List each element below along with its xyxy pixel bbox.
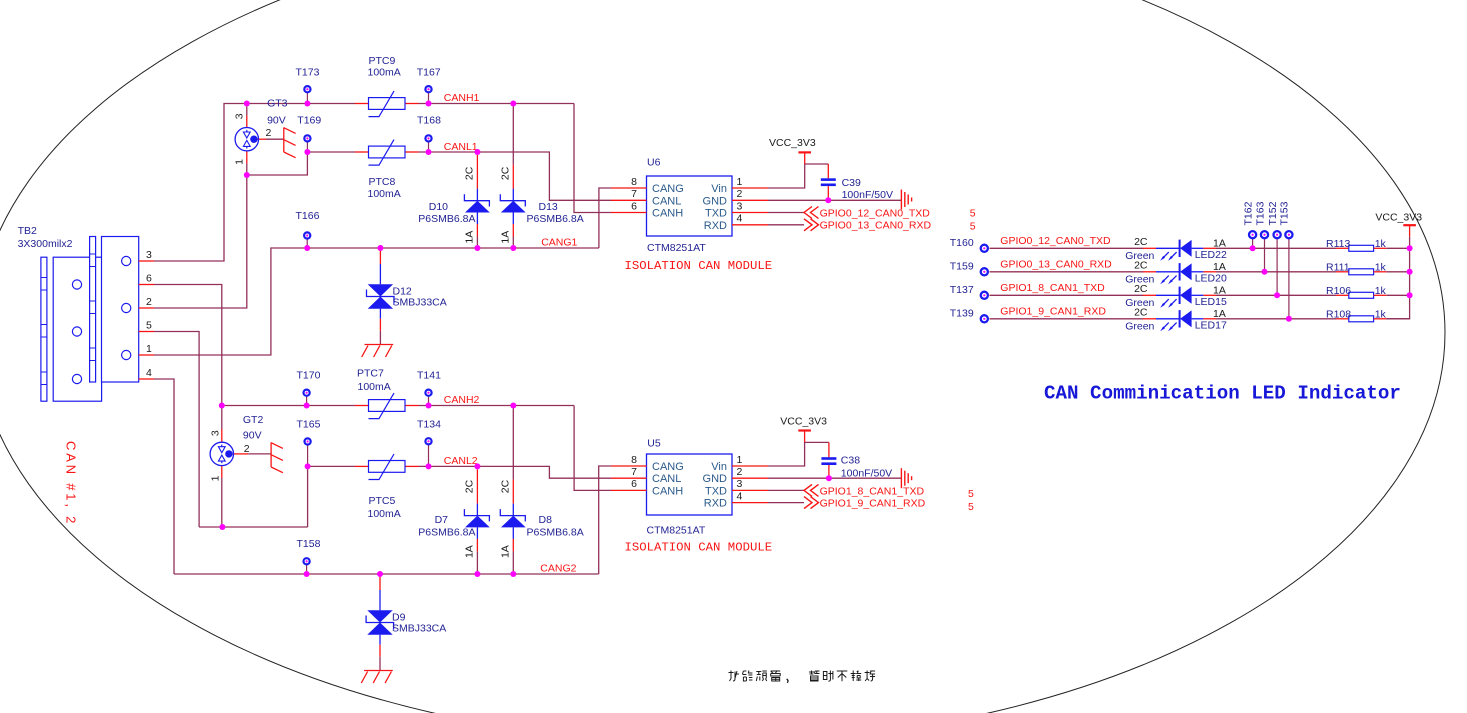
svg-text:T152: T152	[1267, 201, 1279, 225]
svg-text:SMBJ33CA: SMBJ33CA	[392, 623, 446, 635]
junction	[426, 101, 432, 107]
junction	[426, 403, 432, 409]
svg-text:GPIO1_9_CAN1_RXD: GPIO1_9_CAN1_RXD	[1000, 306, 1106, 318]
junction	[474, 571, 480, 577]
wire CANH2 to U5 pin6	[574, 406, 611, 491]
svg-text:1: 1	[234, 159, 246, 165]
svg-text:100mA: 100mA	[358, 381, 391, 393]
svg-text:CANL: CANL	[652, 473, 681, 485]
svg-text:T170: T170	[297, 370, 321, 382]
U5 pin names	[652, 461, 727, 510]
svg-text:GPIO0_13_CAN0_RXD: GPIO0_13_CAN0_RXD	[1000, 259, 1112, 271]
IC U5 CTM8251AT	[611, 454, 768, 515]
svg-text:1: 1	[737, 176, 743, 188]
test point T170	[304, 390, 310, 406]
wire GT3 pin1 to CANL1	[247, 152, 308, 175]
U6 pin numbers	[631, 176, 742, 225]
svg-text:2: 2	[146, 296, 152, 308]
wire U5 TXD	[768, 489, 804, 491]
PTC fuse PTC7	[355, 393, 419, 419]
junction C39-GND	[825, 197, 831, 203]
svg-text:2C: 2C	[463, 166, 475, 180]
wire LED to resistor	[1216, 294, 1336, 296]
test point T137	[981, 292, 988, 299]
svg-text:LED17: LED17	[1195, 320, 1227, 332]
svg-text:LED15: LED15	[1195, 296, 1227, 308]
svg-text:100nF/50V: 100nF/50V	[841, 467, 892, 479]
svg-text:P6SMB6.8A: P6SMB6.8A	[418, 213, 475, 225]
svg-text:GPIO0_12_CAN0_TXD: GPIO0_12_CAN0_TXD	[1000, 235, 1111, 247]
wire U6 GND to ground	[768, 199, 901, 201]
wire CANH1 to PTC9	[247, 103, 355, 105]
svg-text:GPIO0_12_CAN0_TXD: GPIO0_12_CAN0_TXD	[820, 207, 931, 219]
svg-text:2: 2	[737, 466, 743, 478]
bidirectional TVS D9	[366, 577, 394, 671]
port chevron TXD (U6)	[804, 207, 819, 219]
GT2 pin2 wire	[233, 453, 272, 455]
svg-text:CANH: CANH	[652, 485, 683, 497]
connector TB2 (back body)	[41, 257, 102, 401]
wire U5 GND to ground	[768, 477, 901, 479]
PTC fuse PTC5	[355, 454, 419, 480]
resistor R113	[1336, 245, 1386, 251]
GT2 pin1 vertical	[221, 466, 223, 527]
svg-text:100nF/50V: 100nF/50V	[842, 189, 893, 201]
wire TB2-4 down to CANG2	[154, 379, 174, 574]
LED LED15	[1143, 287, 1216, 308]
test point T173	[304, 86, 310, 103]
resistor R111	[1336, 269, 1386, 275]
junction	[474, 463, 480, 469]
wire CANL1 to PTC8	[307, 151, 355, 153]
svg-text:R106: R106	[1326, 285, 1351, 297]
op-amp/IC U6 CTM8251AT	[611, 176, 768, 236]
svg-text:TXD: TXD	[705, 208, 727, 220]
svg-text:1k: 1k	[1375, 261, 1387, 273]
svg-text:T167: T167	[417, 67, 441, 79]
wire resistor to VCC rail	[1386, 318, 1409, 320]
wire CANH2 to PTC7	[222, 405, 355, 407]
LED LED20	[1143, 263, 1216, 284]
svg-text:6: 6	[631, 478, 637, 490]
svg-text:1k: 1k	[1375, 285, 1387, 297]
note text (chinese) 功能预留，暂时不焊接	[729, 671, 876, 683]
junction	[510, 101, 516, 107]
svg-text:TB2: TB2	[18, 225, 37, 237]
svg-text:VCC_3V3: VCC_3V3	[780, 416, 827, 428]
svg-text:GPIO0_13_CAN0_RXD: GPIO0_13_CAN0_RXD	[820, 220, 932, 232]
svg-text:T169: T169	[297, 115, 321, 127]
svg-text:T159: T159	[950, 260, 974, 272]
svg-text:P6SMB6.8A: P6SMB6.8A	[527, 213, 584, 225]
spark gap earth symbol (GT3 pin2)	[284, 127, 296, 157]
test point T158	[304, 558, 310, 574]
wire LED to resistor	[1216, 271, 1336, 273]
svg-text:6: 6	[146, 272, 152, 284]
wire CANH1 PTC9 to corner	[418, 103, 574, 105]
gas discharge tube GT3	[235, 128, 258, 151]
svg-text:Green: Green	[1125, 321, 1154, 333]
junction	[426, 149, 432, 155]
svg-text:T162: T162	[1242, 201, 1254, 225]
svg-text:4: 4	[737, 213, 743, 225]
LED LED17	[1143, 310, 1216, 331]
wire U5 Vin to VCC	[768, 442, 829, 466]
port chevron TXD (U5)	[804, 484, 819, 496]
svg-text:5: 5	[146, 319, 152, 331]
capacitor C38 plates	[821, 457, 836, 465]
wire CANL1 to U6 pin7	[418, 152, 611, 200]
wire LED to resistor	[1216, 247, 1336, 249]
svg-text:CANH2: CANH2	[444, 394, 480, 406]
junction	[510, 571, 516, 577]
svg-text:2C: 2C	[499, 479, 511, 493]
junction	[305, 463, 311, 469]
wire T139 to LED	[990, 318, 1144, 320]
svg-text:ISOLATION CAN MODULE: ISOLATION CAN MODULE	[625, 541, 773, 555]
svg-text:D10: D10	[429, 201, 448, 213]
test point T134	[425, 438, 431, 466]
ground (chassis) below D12	[362, 345, 394, 358]
svg-text:RXD: RXD	[704, 220, 727, 232]
svg-text:TXD: TXD	[705, 485, 727, 497]
junction	[244, 172, 250, 178]
svg-text:4: 4	[737, 490, 743, 502]
svg-text:2: 2	[266, 127, 272, 139]
svg-text:GPIO1_8_CAN1_TXD: GPIO1_8_CAN1_TXD	[820, 485, 925, 497]
svg-text:2: 2	[737, 188, 743, 200]
wire U6 Vin to VCC	[768, 164, 828, 188]
svg-text:LED20: LED20	[1195, 273, 1227, 285]
svg-text:CTM8251AT: CTM8251AT	[647, 525, 706, 537]
svg-text:2C: 2C	[499, 166, 511, 180]
junction T162	[1250, 245, 1256, 251]
junction	[474, 245, 480, 251]
test point T141	[425, 390, 431, 406]
svg-text:1k: 1k	[1375, 308, 1387, 320]
svg-text:3: 3	[737, 200, 743, 212]
wire T159 to LED	[990, 271, 1144, 273]
svg-text:2C: 2C	[1134, 260, 1148, 272]
svg-text:U6: U6	[647, 157, 661, 169]
svg-text:CAN Comminication LED Indicato: CAN Comminication LED Indicator	[1044, 383, 1401, 405]
wire TB2-3 to CANH1	[154, 104, 247, 262]
wire T160 to LED	[990, 247, 1144, 249]
resistor R106	[1336, 292, 1386, 298]
wire resistor to VCC rail	[1386, 247, 1409, 249]
svg-text:2: 2	[244, 443, 250, 455]
svg-text:T153: T153	[1279, 201, 1291, 225]
junction	[304, 149, 310, 155]
junction C38-GND	[826, 475, 832, 481]
wire VCC rail	[1386, 237, 1409, 319]
svg-text:GPIO1_8_CAN1_TXD: GPIO1_8_CAN1_TXD	[1000, 282, 1105, 294]
svg-text:5: 5	[970, 221, 976, 233]
svg-text:7: 7	[631, 188, 637, 200]
power symbol VCC_3V3 (U5)	[798, 431, 811, 443]
svg-text:PTC8: PTC8	[369, 176, 396, 188]
svg-text:CANH: CANH	[652, 208, 683, 220]
TVS diode D7	[464, 469, 489, 571]
junction T163	[1262, 269, 1268, 275]
svg-text:4: 4	[146, 367, 152, 379]
svg-text:CANL1: CANL1	[444, 141, 478, 153]
svg-text:ISOLATION CAN MODULE: ISOLATION CAN MODULE	[625, 259, 773, 273]
svg-text:R113: R113	[1326, 238, 1350, 250]
capacitor C39 plates	[821, 178, 836, 186]
ground (U5 GND)	[901, 468, 911, 488]
svg-text:T160: T160	[950, 237, 974, 249]
wire T137 to LED	[990, 294, 1144, 296]
wire TB2-2 up to GT3 pin1	[154, 175, 247, 308]
svg-text:CANG2: CANG2	[540, 563, 576, 575]
svg-text:8: 8	[631, 176, 637, 188]
svg-text:T137: T137	[950, 284, 974, 296]
svg-text:8: 8	[631, 454, 637, 466]
svg-text:7: 7	[631, 466, 637, 478]
wire CANG2 to U5 pin8	[599, 466, 611, 574]
svg-text:GT3: GT3	[267, 98, 288, 110]
test point T169	[304, 135, 310, 152]
svg-text:5: 5	[968, 501, 974, 513]
junction VCC rail	[1407, 245, 1413, 251]
svg-text:1A: 1A	[463, 231, 475, 244]
wire CANL2 to PTC5	[308, 465, 355, 467]
GT3 pin2 wire	[257, 138, 283, 140]
svg-text:D8: D8	[539, 514, 553, 526]
test point T139	[981, 315, 988, 322]
wire CANL2 to U5 pin7	[418, 466, 611, 478]
svg-text:T141: T141	[417, 370, 441, 382]
resistor R108	[1336, 316, 1386, 322]
svg-text:1: 1	[210, 475, 222, 481]
junction	[244, 101, 250, 107]
svg-text:CANG1: CANG1	[541, 237, 577, 249]
junction	[510, 403, 516, 409]
svg-text:VCC_3V3: VCC_3V3	[1375, 212, 1422, 224]
junction	[510, 245, 516, 251]
wire U6 RXD	[768, 224, 804, 226]
svg-text:T168: T168	[417, 115, 441, 127]
svg-text:6: 6	[631, 200, 637, 212]
svg-text:1A: 1A	[499, 231, 511, 244]
svg-text:1: 1	[737, 454, 743, 466]
test point T153	[1285, 231, 1292, 319]
svg-text:R111: R111	[1326, 261, 1350, 273]
capacitor C38	[828, 442, 830, 457]
svg-text:1A: 1A	[499, 545, 511, 558]
junction	[426, 463, 432, 469]
test point T159	[981, 268, 988, 275]
svg-text:VCC_3V3: VCC_3V3	[769, 137, 816, 149]
svg-text:T165: T165	[297, 418, 321, 430]
svg-text:T173: T173	[296, 67, 320, 79]
LED LED22	[1143, 240, 1216, 261]
svg-text:PTC7: PTC7	[357, 368, 384, 380]
wire U5 RXD	[768, 502, 804, 504]
svg-text:90V: 90V	[267, 115, 286, 127]
svg-text:T158: T158	[297, 538, 321, 550]
test point T162	[1249, 231, 1256, 248]
svg-text:2C: 2C	[1134, 307, 1148, 319]
GT3 pin1 vertical	[246, 151, 248, 175]
port chevron RXD (U6)	[804, 219, 819, 231]
capacitor C39	[827, 164, 829, 178]
wire CANH1 to U6 pin6	[574, 104, 611, 213]
PTC fuse PTC9	[355, 91, 419, 117]
TB2 pin stubs and numbers	[139, 261, 154, 379]
junction	[219, 524, 225, 530]
svg-text:1A: 1A	[463, 545, 475, 558]
wire riser to CANL2	[307, 466, 309, 527]
svg-text:D13: D13	[539, 201, 558, 213]
svg-text:1k: 1k	[1375, 238, 1387, 250]
GT2 pin3 vertical	[221, 403, 223, 443]
junction	[474, 149, 480, 155]
svg-text:T139: T139	[950, 307, 974, 319]
TVS diode D13	[500, 106, 525, 245]
svg-text:CANG: CANG	[652, 183, 684, 195]
TVS diode D8	[500, 408, 525, 571]
svg-text:CAN #1, 2: CAN #1, 2	[64, 441, 79, 526]
svg-text:D7: D7	[435, 514, 449, 526]
svg-text:LED22: LED22	[1195, 249, 1227, 261]
svg-text:PTC5: PTC5	[369, 495, 396, 507]
svg-text:CTM8251AT: CTM8251AT	[647, 242, 706, 254]
U5 pin numbers	[631, 454, 742, 503]
ground (chassis) below D9	[361, 671, 393, 684]
test point T165	[305, 438, 311, 466]
svg-text:2C: 2C	[1134, 236, 1148, 248]
junction	[304, 245, 310, 251]
test point T152	[1274, 231, 1281, 295]
U6 pin names	[652, 183, 727, 232]
wire resistor to VCC rail	[1386, 271, 1409, 273]
svg-text:T163: T163	[1254, 201, 1266, 225]
svg-text:GPIO1_9_CAN1_RXD: GPIO1_9_CAN1_RXD	[820, 498, 926, 510]
svg-text:C38: C38	[841, 455, 860, 467]
svg-text:CANL: CANL	[652, 195, 681, 207]
svg-text:3: 3	[146, 249, 152, 261]
svg-text:CANL2: CANL2	[444, 455, 478, 467]
svg-text:GT2: GT2	[243, 414, 264, 426]
svg-text:Vin: Vin	[711, 183, 727, 195]
ground (U6 GND)	[901, 190, 911, 210]
svg-text:2C: 2C	[463, 479, 475, 493]
wire CANG1 to U6 pin8	[599, 188, 611, 248]
svg-text:T134: T134	[417, 418, 441, 430]
junction	[304, 571, 310, 577]
gas discharge tube GT2	[210, 442, 233, 465]
svg-text:3: 3	[210, 430, 222, 436]
junction T152	[1274, 292, 1280, 298]
svg-text:R108: R108	[1326, 308, 1351, 320]
wire CANG2 bus	[174, 573, 599, 575]
wire CANH2 PTC7 to corner	[418, 405, 574, 407]
svg-text:3: 3	[737, 478, 743, 490]
svg-text:100mA: 100mA	[368, 67, 401, 79]
junction VCC rail	[1407, 292, 1413, 298]
svg-text:PTC9: PTC9	[369, 55, 396, 67]
TVS diode D10	[464, 155, 489, 245]
bidirectional TVS D12	[367, 251, 395, 345]
svg-text:C39: C39	[842, 177, 861, 189]
svg-text:1: 1	[146, 343, 152, 355]
junction	[304, 403, 310, 409]
wire LED to resistor	[1216, 318, 1336, 320]
svg-text:3: 3	[234, 113, 246, 119]
wire resistor to VCC rail	[1386, 294, 1409, 296]
svg-text:T166: T166	[296, 210, 320, 222]
power symbol VCC_3V3 (U6)	[798, 152, 811, 164]
svg-text:3X300milx2: 3X300milx2	[18, 238, 73, 250]
GT3 pin3 vertical	[246, 106, 248, 127]
test point T163	[1261, 231, 1268, 272]
svg-text:P6SMB6.8A: P6SMB6.8A	[527, 527, 584, 539]
junction	[304, 101, 310, 107]
svg-text:5: 5	[968, 488, 974, 500]
junction	[377, 571, 383, 577]
svg-text:100mA: 100mA	[368, 188, 401, 200]
connector TB2 (front body)	[90, 237, 139, 383]
wire TB2-5 down	[154, 332, 199, 528]
test point T160	[981, 245, 988, 252]
test point T168	[425, 135, 431, 152]
svg-text:2C: 2C	[1134, 283, 1148, 295]
wire U6 TXD	[768, 212, 804, 214]
svg-text:90V: 90V	[243, 430, 262, 442]
spark gap earth symbol (GT2 pin2)	[271, 442, 283, 472]
port chevron RXD (U5)	[804, 497, 819, 509]
PTC fuse PTC8	[355, 140, 419, 166]
junction	[377, 245, 383, 251]
svg-text:GND: GND	[703, 473, 728, 485]
svg-text:U5: U5	[647, 438, 661, 450]
junction VCC rail	[1407, 269, 1413, 275]
svg-text:100mA: 100mA	[368, 508, 401, 520]
svg-text:RXD: RXD	[704, 498, 727, 510]
svg-text:5: 5	[970, 208, 976, 220]
test point T166	[304, 232, 310, 248]
svg-text:P6SMB6.8A: P6SMB6.8A	[418, 527, 475, 539]
power symbol VCC_3V3 (LED rail)	[1403, 225, 1416, 237]
wire GT2 pin1 row	[199, 526, 308, 528]
svg-text:Vin: Vin	[711, 461, 727, 473]
junction T153	[1286, 316, 1292, 322]
svg-text:SMBJ33CA: SMBJ33CA	[393, 297, 447, 309]
svg-text:GND: GND	[703, 195, 728, 207]
wire TB2-6 to CANH2	[154, 285, 222, 406]
junction	[219, 403, 225, 409]
svg-text:CANG: CANG	[652, 461, 684, 473]
svg-text:CANH1: CANH1	[444, 92, 480, 104]
test point T167	[425, 86, 431, 103]
wire CANG1 bus	[154, 248, 599, 355]
